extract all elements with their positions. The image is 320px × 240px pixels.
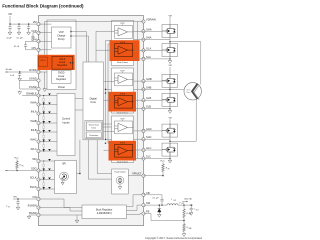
svg-text:Smart Gate: Smart Gate [89,123,100,126]
svg-text:Linear: Linear [58,75,65,78]
svg-text:OUT: OUT [196,209,199,211]
svg-text:GLC: GLC [146,146,151,150]
svg-text:OUT: OUT [173,200,176,202]
pin VGLS label box inside highlight [39,57,48,67]
svg-text:VM: VM [168,118,171,120]
wires Control Inputs to Digital Core [75,98,83,100]
pin GHA [142,30,145,33]
svg-text:nFAULT: nFAULT [132,173,141,176]
svg-text:Functional Block Diagram (cont: Functional Block Diagram (continued) [2,4,84,9]
svg-text:1 µF: 1 µF [10,75,15,77]
svg-text:OUT: OUT [181,203,184,205]
svg-text:VIN: VIN [13,197,17,199]
svg-text:PGND: PGND [29,85,37,89]
dots on power block output [70,31,71,32]
pin SDO [37,169,40,172]
wire GLA to gate [144,49,163,51]
svg-text:CPH: CPH [31,37,37,41]
buffer high-side gate driver A [115,26,133,39]
buffer low-side gate driver A inside orange [115,44,133,57]
pin ENABLE [37,94,40,97]
svg-text:10 µF: 10 µF [6,38,12,40]
wire ENABLE stub [22,95,39,97]
pin DVDD [37,70,40,73]
pin GHC [142,129,145,132]
pin INHB [37,121,40,124]
block VCP Charge Pump U-pump [52,27,72,48]
svg-text:GHA: GHA [146,27,152,31]
svg-text:Pump: Pump [58,38,65,41]
pin GLC [142,148,145,151]
wire internal DVDD ESD ground [44,72,46,88]
svg-text:GLA: GLA [146,46,151,50]
svg-text:AGND: AGND [29,77,37,81]
pin SW [142,204,145,207]
svg-text:VCC: VCC [160,161,165,163]
svg-text:(LMR16006X): (LMR16006X) [97,212,112,215]
svg-text:SHC: SHC [146,135,152,139]
pin SCLK [37,178,40,181]
block DVDD Linear Regulator [52,70,72,83]
esd clamp chain on control input pins [48,94,51,96]
svg-text:IN: IN [8,206,9,208]
buffer low-side gate driver B inside orange [115,95,133,108]
pin SHC [142,138,145,141]
svg-text:DVDD: DVDD [58,73,65,75]
pin GLB [142,99,145,102]
svg-text:nSCS: nSCS [30,185,37,189]
svg-text:Regulator: Regulator [56,78,66,81]
wire nFAULT from fault output to pin [128,175,143,177]
wire phase A to motor [170,41,201,43]
svg-text:VIN: VIN [32,195,36,199]
svg-text:GHC: GHC [146,127,152,131]
capacitor DVDD 1uF [19,71,20,72]
svg-text:VGLS: VGLS [40,60,46,62]
block Fault Output [112,169,129,194]
svg-text:FBB: FBB [189,228,192,230]
block Protection [86,132,101,138]
svg-text:Linear: Linear [59,61,66,64]
wire VIN pin to buck [39,198,65,200]
wire bus VCP to gate drivers [107,44,109,143]
wire SLB source sense [144,108,171,110]
svg-text:INHA: INHA [30,101,36,105]
block Gate Driver C outer box [112,116,134,163]
block Smart Gate Drive [86,122,101,131]
pin VIN [37,197,40,200]
IC body outline [39,16,144,226]
pin nSCS [37,187,40,190]
pin BGND [37,213,40,216]
svg-text:Regulator: Regulator [57,64,67,67]
svg-text:SDI: SDI [32,157,37,161]
svg-text:0.1 µF: 0.1 µF [17,38,24,40]
resistor RFBT feedback top [183,205,185,209]
ground phase A [169,57,171,60]
block VGLS Linear Regulator [52,56,73,69]
buffer high-side gate driver C [115,121,133,134]
capacitor 1uF on VM rail [27,24,30,31]
wires gate driver C outputs to pins [134,130,144,132]
buffer low-side gate driver C inside orange [115,144,133,157]
wires digital core to gate driver inputs [96,30,115,32]
wire VCP rail to digital core [76,31,87,33]
block Gate Driver B outer box [112,68,134,113]
svg-text:FBT: FBT [189,214,192,216]
wire bus VGLS to gate drivers [105,41,107,140]
wire FB feedback [144,213,152,215]
wire phase node SHC [169,137,171,143]
block Control Inputs [57,94,75,156]
svg-text:FB: FB [146,210,150,214]
capacitor CPH-CPL 47nF [26,40,39,42]
svg-text:CPL: CPL [32,46,38,50]
buffer high-side gate driver B [115,73,133,86]
wires SPI pins into SPI block [39,160,55,162]
wire PGND to ground [20,88,39,90]
svg-text:30 mA: 30 mA [5,68,12,71]
wires gate driver B outputs to pins [134,80,144,82]
wires VM VCP CPH CPL into power block [39,23,52,25]
wires gate driver A outputs to pins [134,30,144,32]
pin INLA [37,112,40,115]
wire AGND to ground [20,80,39,82]
ground phase C [169,156,171,159]
wire phase C to motor [170,140,196,142]
svg-text:Control: Control [62,117,71,121]
pin GHB [142,80,145,83]
wire phase node SHB [169,87,171,93]
svg-text:Digital: Digital [90,97,98,101]
wire SLA source sense [144,58,171,60]
pin SLA [142,57,145,60]
svg-text:Gate Driver: Gate Driver [117,61,128,64]
capacitor COUT [190,205,192,207]
wire buck to CB pin [127,206,134,208]
pin VM [37,23,40,26]
svg-text:0.1 µF: 0.1 µF [153,197,160,199]
svg-text:Power: Power [58,86,65,89]
capacitor CB bootstrap 0.1uF [144,194,163,196]
SPI internal symbol [60,172,69,181]
transistor low-side B [162,93,178,106]
inductor LOUT [167,204,178,205]
pin VDRAIN [142,20,145,23]
block smart gate drive and protection container [85,121,103,139]
pin SLB [142,107,145,110]
svg-text:GLB: GLB [146,96,151,100]
svg-text:SCLK: SCLK [30,176,37,180]
svg-text:BGND: BGND [29,211,37,215]
wire BGND pin to buck [39,214,83,216]
svg-text:SHA: SHA [146,36,152,40]
pin GLA [142,49,145,52]
wire VDRAIN branch to VGLS regulator [44,22,46,55]
wire phase B to motor [170,88,184,90]
svg-text:SDO: SDO [31,167,37,171]
wire GHB to gate [144,80,163,82]
block Gate Driver A outer box [112,21,134,66]
transistor high-side A [162,25,178,38]
pin INHC [37,140,40,143]
svg-text:INHB: INHB [30,119,36,123]
svg-text:SPI: SPI [62,163,66,166]
wire nSHDN pin to buck [39,207,71,209]
pin PGND [37,87,40,90]
svg-text:VM: VM [8,14,12,16]
transistor high-side C [162,124,178,137]
svg-text:DVDD: DVDD [29,68,36,72]
block SPI [55,161,77,194]
ground on buck BGND [76,215,78,219]
svg-text:VGLS: VGLS [59,59,66,61]
highlight orange low-side gate driver B [109,92,137,112]
wire VDRAIN sense branch right of gate drivers [137,22,139,159]
wire SPI to Digital Core [77,173,80,175]
transistor low-side A [162,44,178,57]
svg-text:VDRAIN: VDRAIN [146,18,156,22]
wire SDO external with arrow [5,170,39,172]
svg-text:VCP: VCP [31,29,37,33]
svg-text:ENABLE: ENABLE [26,92,37,96]
svg-text:SLB: SLB [146,105,151,109]
svg-text:PU: PU [168,168,170,170]
svg-text:INLC: INLC [31,147,37,151]
block Buck Regulator LMR16006X [82,205,127,219]
pin INLC [37,149,40,152]
svg-text:INLB: INLB [31,128,37,132]
svg-text:VCP: VCP [120,118,125,120]
svg-text:Inputs: Inputs [62,120,70,124]
svg-text:Fault Output: Fault Output [114,171,125,174]
svg-text:VCP: VCP [120,23,125,25]
ground phase B [169,106,171,109]
wire GLC to gate [144,149,163,151]
wire DVDD regulator to DVDD pin [39,71,48,73]
svg-text:VCP: VCP [120,70,125,72]
svg-text:PU: PU [22,165,24,167]
svg-text:Buck Regulator: Buck Regulator [96,209,113,212]
pin nSHDN [37,206,40,209]
pin nFAULT [142,174,145,177]
motor M three-phase [184,83,201,100]
svg-text:SHB: SHB [146,85,152,89]
capacitor bulk 10uF on VM rail [8,24,11,31]
wire SLC source sense [144,158,171,160]
svg-text:CB: CB [146,191,150,195]
block Power container [47,20,76,90]
wire buck to FB pin [127,214,141,216]
wire VOUT node [178,204,193,206]
pin SDI [37,159,40,162]
wire GLB to gate [144,99,163,101]
svg-text:600 mA: 600 mA [184,197,192,200]
svg-text:47 nF: 47 nF [14,46,20,48]
junction dots on VM rail [9,23,10,24]
svg-text:VCC: VCC [14,158,19,160]
pin SLC [142,157,145,160]
svg-text:Protection: Protection [89,134,98,137]
pin AGND [37,79,40,82]
diode catch on SW [158,205,161,213]
svg-text:SW: SW [146,201,151,205]
svg-text:INHC: INHC [30,138,36,142]
svg-text:SLA: SLA [146,55,151,59]
svg-text:GHB: GHB [146,77,152,81]
wire VDRAIN internal rail [45,21,144,23]
pin SHA [142,38,145,41]
pin CB [142,193,145,196]
svg-text:Gate Driver: Gate Driver [117,111,128,114]
svg-text:VM: VM [33,20,37,24]
block Digital Core [83,62,104,140]
svg-text:Core: Core [90,100,96,104]
svg-text:nSHDN: nSHDN [28,204,37,208]
wire SW node [144,204,168,206]
pin CPH [37,40,40,43]
wires digital core to fault output [87,140,89,179]
highlight VGLS regulator orange band [38,55,75,70]
wire DVDD output with 30 mA load arrow [5,71,39,73]
wire phase node SHA [169,38,171,44]
transistor high-side B [162,74,178,87]
wire VM supply rail [9,16,11,24]
wire GHA to gate [144,30,163,32]
resistor RFBB feedback bottom [183,221,185,224]
pin CPL [37,48,40,51]
wires control input pins to Control Inputs block [39,95,58,97]
pin SHB [142,88,145,91]
highlight orange low-side gate driver A [110,40,140,61]
svg-text:Gate Driver: Gate Driver [117,160,128,163]
highlight orange low-side gate driver C [109,141,137,161]
wire GHC to gate [144,130,163,132]
capacitor VCP 1uF [33,32,39,34]
wire BGND external ground [29,214,39,216]
pin INLB [37,130,40,133]
wire buck to SW pin [127,210,138,212]
pin FB [142,212,145,215]
pin VCP [37,31,40,34]
capacitor 0.1uF on VM rail [17,24,20,31]
svg-text:Copyright © 2017, Texas Instru: Copyright © 2017, Texas Instruments Inco… [145,237,203,240]
svg-text:SLC: SLC [146,155,151,159]
svg-text:VM: VM [168,65,171,67]
wire VGLS rail to digital core [76,35,89,37]
pin INHA [37,103,40,106]
transistor low-side C [162,143,178,156]
svg-text:INLA: INLA [31,110,37,114]
svg-text:L: L [171,199,172,201]
